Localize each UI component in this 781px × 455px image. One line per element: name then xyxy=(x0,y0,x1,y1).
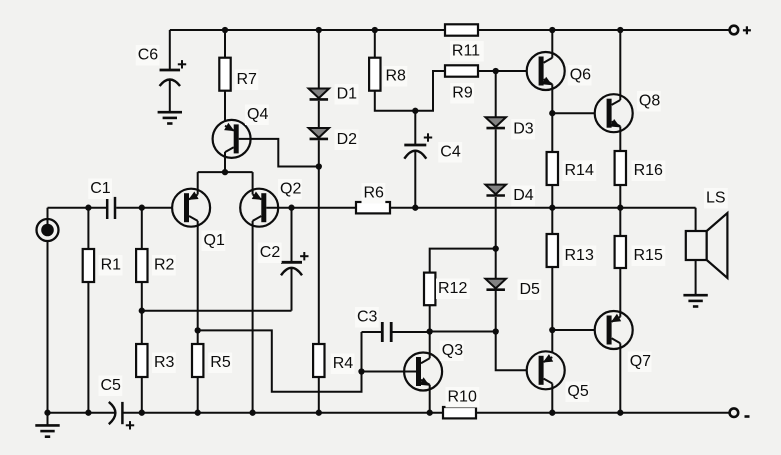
svg-text:R6: R6 xyxy=(364,185,385,202)
resistor R13 xyxy=(547,234,597,267)
wire D1 to D2 xyxy=(318,101,320,128)
svg-text:D3: D3 xyxy=(513,121,534,138)
wire R2 top xyxy=(141,208,143,249)
svg-text:LS: LS xyxy=(706,190,726,207)
capacitor C1 xyxy=(88,179,115,219)
resistor R5 xyxy=(192,344,232,377)
node ground/bottom rail xyxy=(44,410,50,416)
svg-text:C1: C1 xyxy=(90,180,111,197)
svg-text:C3: C3 xyxy=(357,309,378,326)
resistor R1 xyxy=(83,249,123,282)
node Q4/diff-pair tail xyxy=(222,169,228,175)
wire output rail to R15 xyxy=(619,208,621,236)
ground (input) xyxy=(35,425,59,436)
node Q8 collector/top-rail xyxy=(617,27,623,33)
wire Q6 base to D3 xyxy=(495,71,497,117)
wire rail to R8 xyxy=(374,30,376,58)
wire R12 bottom xyxy=(429,305,431,331)
node R2/R3 feedback tap xyxy=(139,308,145,314)
wire feedback tap to C2 xyxy=(142,310,292,312)
node Q7/bottom rail xyxy=(617,410,623,416)
node D5 bottom tap xyxy=(493,328,499,334)
wire C6 to ground xyxy=(169,80,171,112)
wire input to C1 xyxy=(48,207,107,209)
wire Q7 collector to bottom rail xyxy=(619,343,621,413)
wire C6 to rail xyxy=(169,30,171,70)
wire D4 to D5 (crosses output rail) xyxy=(495,197,497,279)
diode D3 xyxy=(485,117,535,139)
ground (C6) xyxy=(158,112,182,123)
wire D2 to R4 xyxy=(318,140,320,344)
transistor Q8 xyxy=(595,91,661,132)
capacitor C4 xyxy=(404,142,462,162)
svg-text:R5: R5 xyxy=(210,354,231,371)
svg-text:Q1: Q1 xyxy=(204,232,225,249)
wire Q3 base lead xyxy=(362,371,417,373)
terminal + (positive supply) xyxy=(730,26,751,35)
wire Q2 base node to C2 xyxy=(291,208,293,263)
wire rail to R7 xyxy=(224,30,226,58)
node R5/bottom rail xyxy=(195,410,201,416)
resistor R3 xyxy=(136,344,176,377)
transistor Q1 xyxy=(172,189,225,251)
wire C3 left lead xyxy=(362,331,383,333)
wire output rail to speaker xyxy=(695,208,697,231)
svg-text:Q5: Q5 xyxy=(567,383,588,400)
plus C4 xyxy=(424,133,432,141)
wire R14 to output rail xyxy=(551,185,553,208)
wire Q1 emitter stub xyxy=(197,172,199,194)
wire rail to D1 xyxy=(318,30,320,89)
wire Q5 collector to Q7 base xyxy=(552,329,606,331)
wire top positive rail (left of R11) xyxy=(170,29,445,31)
wire ground stem xyxy=(47,413,49,426)
diode D4 xyxy=(485,185,535,206)
wire R12 top jumper xyxy=(430,249,496,273)
svg-text:D5: D5 xyxy=(520,281,541,298)
wire C1 to Q1 base xyxy=(116,207,184,209)
wire R6 to speaker (output rail) xyxy=(390,207,696,209)
svg-text:R7: R7 xyxy=(237,71,258,88)
diode D2 xyxy=(309,128,359,150)
node R4/bottom rail xyxy=(316,410,322,416)
svg-text:R4: R4 xyxy=(333,355,354,372)
wire C4 to output rail xyxy=(414,152,416,208)
wire diff pair tail bar xyxy=(198,171,253,173)
transistor Q4 xyxy=(213,105,269,158)
wire R12 bottom jumper xyxy=(430,331,496,333)
resistor R11 xyxy=(445,24,484,61)
svg-text:R11: R11 xyxy=(452,43,480,60)
svg-text:R8: R8 xyxy=(386,68,407,85)
ground (speaker) xyxy=(683,295,707,306)
node R13/Q5/Q7 base xyxy=(549,327,555,333)
wire Q8 emitter to R16 xyxy=(619,126,621,151)
node R1/input xyxy=(85,205,91,211)
node R14/R13/output rail xyxy=(549,205,555,211)
wire D5 to Q5 base xyxy=(496,291,539,370)
wire Q2 collector to bottom rail xyxy=(252,221,254,413)
node R8/top-rail xyxy=(372,27,378,33)
svg-text:C4: C4 xyxy=(440,144,461,161)
node Q3/bottom rail xyxy=(427,410,433,416)
node Q2/bottom rail xyxy=(249,410,255,416)
svg-text:Q2: Q2 xyxy=(280,181,301,198)
plus C6 xyxy=(178,60,186,68)
svg-text:R3: R3 xyxy=(154,354,175,371)
wire D3 to D4 xyxy=(495,130,497,185)
node Q6 emitter/Q8 base xyxy=(549,110,555,116)
svg-text:R15: R15 xyxy=(634,247,663,264)
capacitor C3 xyxy=(355,307,391,342)
terminal input jack xyxy=(37,219,59,241)
svg-text:R1: R1 xyxy=(101,257,122,274)
resistor R14 xyxy=(547,152,597,185)
node C2/Q2 base xyxy=(288,205,294,211)
wire bottom rail (R10 to terminal) xyxy=(476,412,730,414)
diode D1 xyxy=(309,84,359,104)
wire Q3 emitter to bottom rail xyxy=(429,385,431,413)
node C4 top xyxy=(412,108,418,114)
diode D5 xyxy=(485,279,541,300)
node Q6 collector/top-rail xyxy=(549,27,555,33)
node D3/Q6 base xyxy=(493,68,499,74)
node C4/output rail xyxy=(412,205,418,211)
svg-text:D2: D2 xyxy=(337,131,358,148)
wire output rail to R13 xyxy=(551,208,553,234)
wire Q4 base to D2 node xyxy=(239,139,319,167)
resistor R15 xyxy=(615,236,666,268)
svg-text:R13: R13 xyxy=(565,247,594,264)
node Q3 base xyxy=(358,368,364,374)
svg-text:C5: C5 xyxy=(101,377,122,394)
transistor Q7 xyxy=(595,311,652,372)
wire feedback to Q3 base xyxy=(198,330,362,391)
node R12 top tap xyxy=(493,245,499,251)
svg-text:Q4: Q4 xyxy=(247,106,268,123)
wire Q6 emitter to Q8 base xyxy=(552,112,606,114)
node R2/Q1 base xyxy=(139,205,145,211)
wire C4 top lead xyxy=(414,111,416,145)
svg-text:Q7: Q7 xyxy=(630,353,651,370)
node R7/top-rail xyxy=(222,27,228,33)
svg-text:R2: R2 xyxy=(154,257,175,274)
resistor R8 xyxy=(369,58,407,91)
wire R1 top xyxy=(87,208,89,249)
wire top positive rail (right of R11) xyxy=(478,29,730,31)
resistor R6 xyxy=(356,183,390,213)
resistor R7 xyxy=(219,58,258,91)
resistor R10 xyxy=(443,387,479,418)
wire input down to ground rail xyxy=(47,241,49,413)
transistor Q5 xyxy=(527,351,590,402)
wire R15 to Q7 emitter xyxy=(619,268,621,317)
node R3/bottom rail xyxy=(139,410,145,416)
svg-text:Q8: Q8 xyxy=(639,93,660,110)
wire R5 to bottom rail xyxy=(197,377,199,413)
wire input up xyxy=(47,208,49,226)
resistor R12 xyxy=(424,273,470,306)
wire R3 to bottom rail xyxy=(141,377,143,413)
wire R13 to Q5 collector xyxy=(551,267,553,357)
resistor R2 xyxy=(136,249,176,282)
wire R2 to R3 xyxy=(141,282,143,344)
plus C2 xyxy=(300,252,308,260)
wire Q4 emitter to tail xyxy=(224,152,226,172)
svg-text:C6: C6 xyxy=(138,47,159,64)
resistor R9 xyxy=(445,65,478,103)
wire Q1 collector down to R5 xyxy=(197,221,199,344)
node D2/Q4 base xyxy=(316,163,322,169)
speaker LS xyxy=(686,188,728,278)
resistor R4 xyxy=(313,344,354,377)
svg-text:C2: C2 xyxy=(260,244,281,261)
svg-text:D4: D4 xyxy=(513,187,534,204)
wire Q5 emitter to bottom rail xyxy=(551,384,553,413)
svg-text:R14: R14 xyxy=(565,162,594,179)
node Q5/bottom rail xyxy=(549,410,555,416)
svg-text:R16: R16 xyxy=(634,162,663,179)
transistor Q6 xyxy=(527,52,592,90)
wire bottom rail (C5 to R10) xyxy=(122,412,443,414)
svg-text:D1: D1 xyxy=(337,86,358,103)
terminal - (negative supply) xyxy=(730,408,750,417)
node Q1/R5/tap xyxy=(195,327,201,333)
wire speaker to ground xyxy=(695,260,697,295)
wire C3 right lead xyxy=(391,331,430,333)
svg-text:R12: R12 xyxy=(438,280,467,297)
wire R7 to Q4 xyxy=(224,91,226,126)
node R1/bottom rail xyxy=(85,410,91,416)
capacitor C6 xyxy=(136,45,180,86)
wire bottom rail left (gnd to C5) xyxy=(48,412,116,414)
transistor Q3 xyxy=(404,341,464,391)
plus C5 xyxy=(126,421,134,429)
wire R8 to C4 node xyxy=(375,71,445,111)
capacitor C2 xyxy=(258,243,302,276)
wire C2 to feedback tap xyxy=(291,268,293,311)
node D1/top-rail xyxy=(316,27,322,33)
transistor Q2 xyxy=(240,179,302,227)
wire Q3 collector xyxy=(429,332,431,359)
capacitor C5 xyxy=(99,376,123,425)
svg-text:R10: R10 xyxy=(448,389,477,406)
wire Q2 base to R6 xyxy=(266,207,356,209)
wire Q2 emitter stub xyxy=(252,172,254,194)
resistor R16 xyxy=(615,151,666,185)
node C3/R12/Q3 collector xyxy=(427,328,433,334)
wire R4 to bottom rail xyxy=(318,377,320,413)
svg-text:Q6: Q6 xyxy=(570,67,591,84)
wire Q8 collector to rail xyxy=(619,30,621,100)
wire Q6 emitter down xyxy=(551,84,553,152)
svg-text:R9: R9 xyxy=(452,85,473,102)
node R16/R15/output rail xyxy=(617,205,623,211)
wire R9 to Q6 base xyxy=(478,70,539,72)
svg-text:Q3: Q3 xyxy=(442,342,463,359)
wire R16 to output rail xyxy=(619,185,621,208)
wire Q6 collector to rail xyxy=(551,30,553,58)
wire R1 bottom xyxy=(87,282,89,413)
